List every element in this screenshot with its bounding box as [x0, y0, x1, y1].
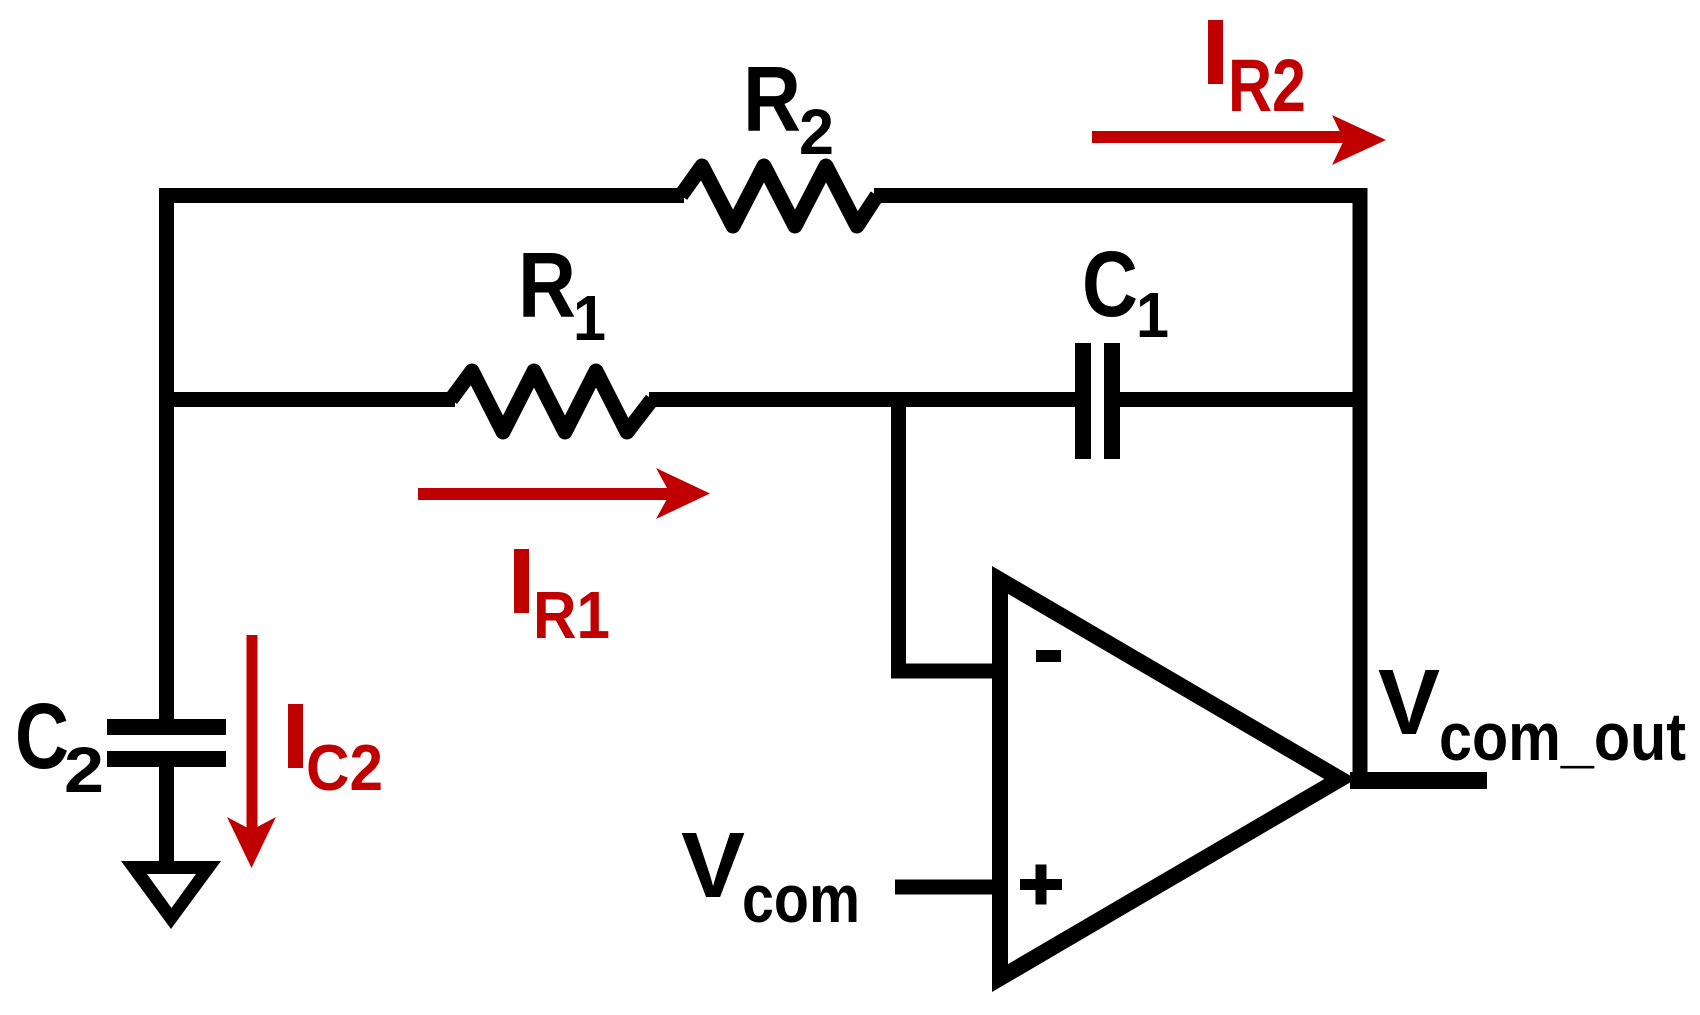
svg-text:1: 1	[573, 282, 606, 354]
svg-text:R: R	[743, 47, 801, 151]
svg-text:com_out: com_out	[1439, 699, 1686, 775]
svg-text:2: 2	[799, 96, 834, 168]
svg-text:V: V	[681, 813, 745, 917]
svg-text:R1: R1	[533, 578, 610, 653]
svg-text:C: C	[1082, 232, 1138, 336]
svg-text:C: C	[15, 684, 69, 788]
svg-text:2: 2	[64, 734, 104, 806]
svg-text:1: 1	[1136, 279, 1169, 351]
svg-text:R: R	[518, 233, 576, 337]
svg-text:com: com	[742, 861, 860, 937]
svg-text:C2: C2	[306, 731, 383, 804]
svg-text:V: V	[1378, 650, 1440, 754]
svg-text:R2: R2	[1228, 44, 1306, 127]
